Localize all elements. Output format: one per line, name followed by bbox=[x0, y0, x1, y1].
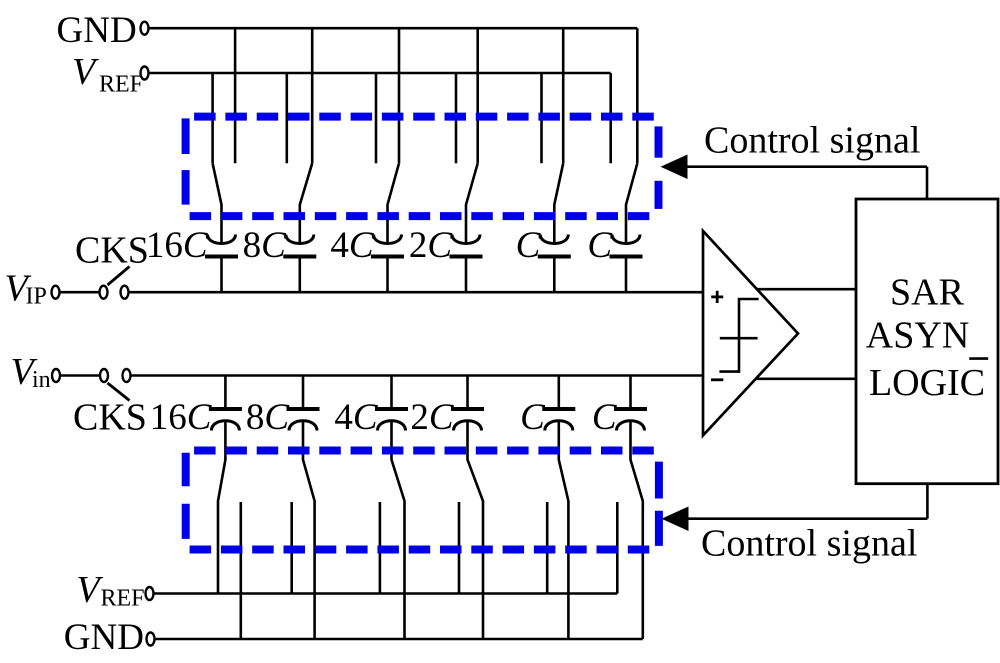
svg-text:IP: IP bbox=[26, 284, 47, 310]
svg-text:SAR: SAR bbox=[890, 272, 965, 314]
svg-text:LOGIC: LOGIC bbox=[869, 362, 985, 404]
svg-text:CKS: CKS bbox=[73, 397, 147, 439]
svg-text:CKS: CKS bbox=[75, 230, 149, 272]
svg-text:16C: 16C bbox=[150, 397, 213, 438]
svg-text:2C: 2C bbox=[410, 397, 455, 438]
svg-text:V: V bbox=[72, 51, 99, 93]
svg-text:2C: 2C bbox=[409, 225, 454, 266]
svg-text:ASYN: ASYN bbox=[866, 315, 969, 357]
svg-text:16C: 16C bbox=[146, 225, 209, 266]
svg-text:GND: GND bbox=[57, 10, 137, 51]
svg-text:8C: 8C bbox=[246, 397, 291, 438]
svg-text:C: C bbox=[520, 397, 546, 438]
svg-text:GND: GND bbox=[64, 617, 144, 658]
svg-text:4C: 4C bbox=[330, 225, 375, 266]
svg-text:REF: REF bbox=[101, 586, 145, 612]
svg-text:4C: 4C bbox=[334, 397, 379, 438]
svg-text:in: in bbox=[32, 367, 51, 393]
svg-text:C: C bbox=[587, 225, 613, 266]
svg-text:8C: 8C bbox=[243, 225, 288, 266]
svg-text:Control signal: Control signal bbox=[704, 120, 920, 162]
svg-text:C: C bbox=[516, 225, 542, 266]
svg-text:REF: REF bbox=[99, 72, 143, 98]
svg-text:C: C bbox=[592, 397, 618, 438]
svg-text:V: V bbox=[76, 569, 103, 611]
svg-text:Control signal: Control signal bbox=[701, 523, 917, 565]
